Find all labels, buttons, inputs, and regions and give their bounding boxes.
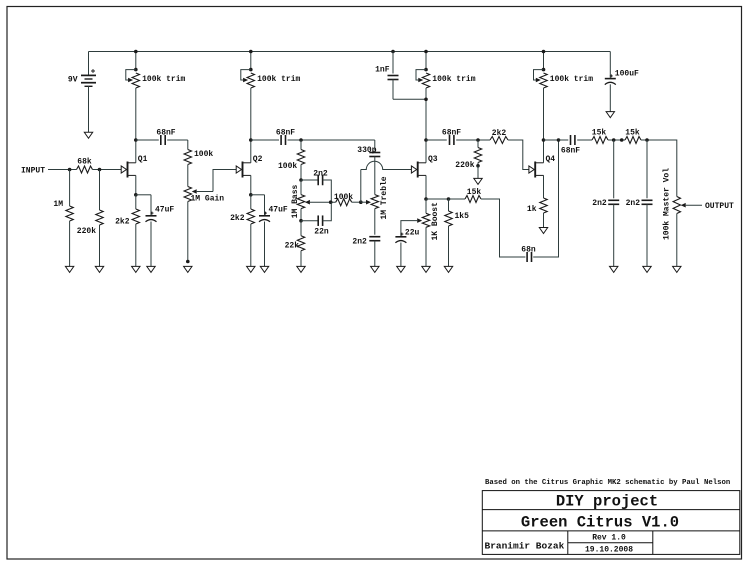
ground master vol (673, 266, 681, 272)
junction on 9V rail (424, 50, 428, 54)
junction input / 1M (68, 168, 72, 172)
trimmer resistor 100k trim (247, 73, 254, 88)
junction bass top (299, 178, 303, 182)
trimmer wiper wire (126, 70, 136, 80)
svg-text:47uF: 47uF (155, 206, 174, 215)
svg-text:Based on the Citrus Graphic MK: Based on the Citrus Graphic MK2 schemati… (485, 479, 730, 487)
svg-text:2k2: 2k2 (230, 214, 245, 223)
capacitor 330p (369, 153, 380, 157)
junction bass wiper / caps (329, 200, 333, 204)
junction Q4 drain node (542, 138, 546, 142)
svg-text:100k: 100k (334, 193, 353, 202)
potentiometer 1M Gain (184, 187, 191, 202)
svg-text:220k: 220k (455, 161, 474, 170)
capacitor 22n (318, 215, 322, 226)
resistor 220k input (96, 210, 103, 225)
trimmer resistor 100k trim (132, 73, 139, 88)
wire to 68nF out (559, 139, 569, 141)
svg-text:22k: 22k (285, 242, 300, 251)
resistor 1M (66, 206, 73, 221)
wire rail to 1nF (392, 52, 394, 74)
title block table (482, 491, 740, 555)
transistor Q2 drain stub (243, 162, 251, 164)
wire rail to trimmer at x=135.8 (135, 52, 137, 70)
resistor 100k tone (297, 150, 304, 165)
wire Q4 source to 1k (543, 175, 545, 198)
battery 9V (81, 52, 96, 133)
wire Q3 source to boost pot (425, 199, 427, 213)
wire 22n to bass wiper node (323, 202, 332, 221)
wire 1k to ground (543, 213, 545, 228)
wire to 2n2 a (613, 140, 615, 198)
wire 47uF to ground (150, 222, 152, 267)
transistor Q4 channel bar (534, 162, 536, 178)
ground 220k (95, 266, 103, 272)
svg-text:INPUT: INPUT (21, 166, 45, 175)
treble pot wiper arrow (366, 200, 371, 205)
capacitor 2n2 b (642, 200, 653, 204)
capacitor 47uF stage1 (146, 212, 157, 222)
transistor Q1 channel bar (127, 162, 129, 178)
wire 220k to ground (477, 166, 479, 179)
svg-text:OUTPUT: OUTPUT (705, 202, 734, 211)
trimmer wiper arrow (128, 78, 133, 83)
wire 1nF to trimmer3 column (393, 98, 426, 100)
junction 220k top (476, 138, 480, 142)
wire master wiper to OUTPUT (686, 204, 702, 206)
junction 220k bottom (476, 164, 480, 168)
transistor Q1 source wire (135, 175, 137, 194)
resistor 15k output1 (592, 137, 608, 144)
ground 2n2 b (643, 266, 651, 272)
svg-text:9V: 9V (68, 75, 78, 84)
wire 1k5 top (448, 199, 450, 211)
junction Q3 drain node (424, 138, 428, 142)
ground 2n2 a (610, 266, 618, 272)
wire to tone 100k (300, 140, 302, 150)
capacitor 22u (395, 233, 406, 243)
junction Q1 drain node (134, 138, 138, 142)
junction Q2 drain node (249, 138, 253, 142)
junction Q3 source node (424, 197, 428, 201)
wire 68nF3 to 2k2 (456, 139, 490, 141)
wire rail to trimmer at x=250.8 (250, 52, 252, 70)
svg-text:15k: 15k (592, 129, 607, 138)
wire Q2 source to 47uF (251, 194, 265, 196)
wire tone top to 330p (374, 140, 376, 151)
transistor Q2 drain wire (250, 140, 252, 163)
junction feedback 68n (557, 138, 561, 142)
junction on 9V rail (249, 50, 253, 54)
trimmer wiper wire (241, 70, 251, 80)
ground 100uF (606, 112, 614, 118)
wire trimmer2 to Q2 drain node (250, 88, 252, 140)
svg-text:68nF: 68nF (442, 129, 461, 138)
wire bass pot to 22n node (300, 209, 302, 221)
wire to 2n2 b (646, 140, 648, 198)
svg-text:1k: 1k (527, 205, 537, 214)
bass pot wiper arrow (305, 200, 310, 205)
wire Q3 drain to 68nF (426, 139, 447, 141)
svg-text:Rev 1.0: Rev 1.0 (592, 534, 626, 543)
svg-text:100k trim: 100k trim (550, 75, 593, 84)
boost pot wiper arrow (417, 218, 422, 223)
wire 220k bottom (477, 163, 479, 166)
svg-text:Q1: Q1 (138, 155, 148, 164)
transistor Q3 drain stub (418, 162, 426, 164)
svg-text:68nF: 68nF (276, 129, 295, 138)
svg-text:Q3: Q3 (428, 155, 438, 164)
trimmer wiper arrow (536, 78, 541, 83)
transistor Q1 drain stub (128, 162, 136, 164)
resistor 68k (77, 166, 93, 173)
ground 47uF stage1 (147, 266, 155, 272)
svg-text:100k: 100k (278, 162, 297, 171)
wire 68nF to 100k gain (167, 139, 188, 141)
capacitor 1nF (388, 76, 399, 80)
transistor Q2 channel bar (242, 162, 244, 178)
transistor Q3 gate arrow (411, 166, 416, 173)
resistor 220k stage3 (474, 148, 481, 163)
wire 2k2 stage2 to ground (250, 224, 252, 266)
svg-text:1M Treble: 1M Treble (380, 176, 389, 219)
junction trimmer top (249, 68, 253, 72)
wire gain wiper to Q2 gate (213, 170, 236, 192)
wire hop over 330p branch (361, 161, 412, 169)
wire down to 47uF (150, 195, 152, 216)
ground 1k (539, 228, 547, 234)
junction gain pot ground (186, 260, 190, 264)
junction bass bottom (299, 219, 303, 223)
wire 68n to Q4 drain node (533, 140, 558, 257)
resistor 22k (297, 236, 304, 251)
wire treble node up (360, 170, 362, 203)
transistor Q4 drain wire (543, 140, 545, 163)
svg-text:68nF: 68nF (156, 129, 175, 138)
trimmer wiper arrow (418, 78, 423, 83)
wire rail to trimmer at x=543.5 (543, 52, 545, 70)
svg-text:Q2: Q2 (253, 155, 263, 164)
wire 15k to 68n feedback (481, 199, 525, 257)
wire Q1 source to 2k2 (135, 195, 137, 209)
master vol wiper arrow (681, 203, 686, 208)
transistor Q3 channel bar (417, 162, 419, 178)
svg-text:22u: 22u (405, 228, 420, 237)
svg-text:15k: 15k (467, 188, 482, 197)
svg-text:1K Boost: 1K Boost (431, 202, 440, 241)
junction on 9V rail (134, 50, 138, 54)
wire treble wiper (361, 201, 366, 203)
svg-text:Branimir Bozak: Branimir Bozak (485, 541, 565, 552)
svg-text:22n: 22n (314, 228, 329, 237)
potentiometer 100k Master Vol (673, 197, 680, 214)
wire 2n2 treble to ground (374, 241, 376, 267)
svg-text:Green Citrus V1.0: Green Citrus V1.0 (521, 513, 679, 531)
trimmer wiper wire (534, 70, 544, 80)
svg-text:1nF: 1nF (375, 65, 390, 74)
wire 22u to ground (400, 243, 402, 267)
wire bass top to 2n2 (301, 179, 318, 181)
ground 2k2 stage1 (132, 266, 140, 272)
junction on 9V rail (542, 50, 546, 54)
junction 2n2 a (612, 138, 616, 142)
trimmer resistor 100k trim (540, 73, 547, 88)
wire boost wiper to 22u (401, 221, 417, 237)
capacitor 68n (527, 252, 531, 262)
ground 1k5 (444, 266, 452, 272)
svg-text:2n2: 2n2 (626, 199, 641, 208)
svg-text:19.10.2008: 19.10.2008 (585, 546, 633, 555)
wire to 22n (301, 220, 318, 222)
wire 2n2 to bass wiper node (323, 180, 332, 202)
junction 15k2 input (620, 138, 624, 142)
wire bass node to bass pot (300, 180, 302, 195)
junction 1nF trimmer3 (424, 98, 428, 102)
ground gain pot (184, 266, 192, 272)
wire Q1 source to 47uF (136, 194, 151, 196)
svg-text:100k trim: 100k trim (142, 75, 185, 84)
wire to 1M (69, 170, 71, 207)
wire to 220k stage3 (477, 140, 479, 148)
wire 220k to ground (99, 225, 101, 266)
wire gain wiper (197, 191, 213, 193)
transistor Q1 gate arrow (121, 166, 126, 173)
wire trimmer3 to Q3 drain node (425, 88, 427, 140)
wire 15k2 to master vol (641, 140, 677, 197)
capacitor 47uF stage2 (259, 212, 270, 222)
transistor Q2 source stub (243, 174, 251, 176)
potentiometer 1K Boost (422, 213, 429, 227)
wire 2k2 to Q4 gate (508, 140, 529, 170)
svg-text:DIY project: DIY project (556, 492, 658, 510)
wire down to 47uF stage2 (264, 195, 266, 216)
wire bass bottom to 22k (300, 221, 302, 236)
transistor Q4 source wire (543, 175, 545, 197)
resistor 2k2 stage2 (247, 209, 254, 224)
transistor Q3 drain wire (425, 140, 427, 163)
ground 2k2 stage2 (247, 266, 255, 272)
wire bass wiper to 100k mid (310, 201, 336, 203)
svg-text:100k trim: 100k trim (432, 75, 475, 84)
junction trimmer top (424, 68, 428, 72)
potentiometer 1M Bass (297, 195, 304, 209)
capacitor 2n2 treble (369, 237, 380, 241)
resistor 2k2 stage1 (132, 209, 139, 224)
wire 100uF to ground (609, 84, 611, 111)
svg-text:47uF: 47uF (269, 206, 288, 215)
junction 2n2 b (645, 138, 649, 142)
svg-text:2n2: 2n2 (313, 169, 328, 178)
ground 1M (65, 266, 73, 272)
svg-text:100k: 100k (194, 150, 213, 159)
transistor Q4 source stub (535, 174, 543, 176)
trimmer resistor 100k trim (422, 73, 429, 88)
transistor Q1 source stub (128, 174, 136, 176)
wire gain pot to ground (187, 202, 189, 262)
svg-text:68k: 68k (77, 157, 92, 166)
wire 1nF down (392, 80, 394, 100)
junction trimmer top (542, 68, 546, 72)
resistor 15k stage3 (465, 196, 481, 203)
transistor Q3 source stub (418, 174, 426, 176)
transistor Q2 gate arrow (236, 166, 241, 173)
capacitor 68nF output (571, 135, 575, 145)
svg-text:1M: 1M (53, 200, 63, 209)
wire 22k to ground (300, 251, 302, 267)
capacitor 2n2 bass (318, 175, 322, 186)
capacitor 68nF stage1 (161, 135, 165, 145)
svg-text:220k: 220k (77, 227, 96, 236)
ground 2n2 treble (371, 266, 379, 272)
wire to 15k stage3 (449, 198, 466, 200)
ground 47uF stage2 (260, 266, 268, 272)
transistor Q4 gate arrow (529, 166, 534, 173)
svg-text:1k5: 1k5 (455, 212, 470, 221)
junction Q2 source node (249, 193, 253, 197)
resistor 100k mid (336, 199, 352, 206)
wire 100k to gain pot (187, 165, 189, 187)
svg-text:1M Gain: 1M Gain (191, 195, 225, 204)
wire Q1 drain to 68nF (136, 139, 159, 141)
junction trimmer top (134, 68, 138, 72)
svg-text:100k Master Vol: 100k Master Vol (662, 168, 671, 240)
wire 1M to ground (69, 221, 71, 266)
junction 68k / 220k (98, 168, 102, 172)
wire rail to trimmer at x=426.0 (425, 52, 427, 70)
wire Q2 source to 2k2 (250, 195, 252, 209)
wire 68k to Q1 gate (93, 169, 122, 171)
wire 2n2 b to ground (646, 204, 648, 266)
capacitor 68nF stage3 (450, 135, 454, 145)
wire trimmer1 to Q1 drain node (135, 88, 137, 140)
resistor 1k (540, 198, 547, 213)
wire to 220k (99, 170, 101, 211)
svg-text:15k: 15k (625, 129, 640, 138)
ground battery (84, 132, 92, 138)
wire 68nF4 to 15k (577, 139, 592, 141)
capacitor 68nF stage2 (281, 135, 285, 145)
wire 100k tone to bass node (300, 165, 302, 181)
wire 1k5 to ground (448, 226, 450, 266)
ground 22u (397, 266, 405, 272)
junction tone 100k top (299, 138, 303, 142)
transistor Q2 source wire (250, 175, 252, 194)
wire Q3 source row (426, 198, 449, 200)
junction 1k5 top (447, 197, 451, 201)
wire 9V power rail (89, 51, 611, 53)
wire INPUT (48, 169, 77, 171)
resistor 1k5 (445, 211, 452, 226)
svg-text:100k trim: 100k trim (257, 75, 300, 84)
junction Q1 source node (134, 193, 138, 197)
wire 100k mid to treble node (352, 201, 361, 203)
wire corner down to 100k (187, 140, 189, 150)
wire Q4 drain to feedback node (544, 139, 559, 141)
resistor 100k gain top (184, 150, 191, 165)
ground 220k stage3 (474, 178, 482, 184)
capacitor 2n2 a (608, 200, 619, 204)
svg-text:330p: 330p (357, 146, 376, 155)
wire trimmer4 to Q4 drain node (543, 88, 545, 140)
wire 330p to treble pot (374, 157, 376, 195)
svg-text:2n2: 2n2 (352, 237, 367, 246)
gain pot wiper arrow (192, 189, 197, 194)
ground boost pot (422, 266, 430, 272)
junction treble wiper node (359, 200, 363, 204)
svg-text:2k2: 2k2 (492, 129, 507, 138)
resistor 2k2 coupling (490, 137, 508, 144)
wire treble pot to 2n2 (374, 209, 376, 235)
transistor Q3 source wire (425, 175, 427, 199)
potentiometer 1M Treble (371, 195, 378, 209)
svg-text:2n2: 2n2 (592, 199, 607, 208)
svg-text:2k2: 2k2 (115, 217, 130, 226)
wire master vol to ground (676, 214, 678, 267)
resistor 15k output2 (625, 137, 641, 144)
wire 47uF2 to ground (264, 222, 266, 267)
wire 2n2 a to ground (613, 204, 615, 266)
wire 68nF2 to tone stack (288, 139, 375, 141)
trimmer wiper wire (416, 70, 426, 80)
svg-text:68nF: 68nF (561, 146, 580, 155)
transistor Q4 drain stub (535, 162, 543, 164)
wire Q2 drain to 68nF (251, 139, 279, 141)
svg-text:100uF: 100uF (615, 69, 639, 78)
wire boost pot to ground (425, 227, 427, 266)
junction rail 1nF (391, 50, 395, 54)
svg-text:1M Bass: 1M Bass (291, 185, 300, 219)
wire between 15k resistors (608, 139, 625, 141)
svg-text:Q4: Q4 (546, 155, 556, 164)
capacitor 100uF (605, 74, 616, 84)
trimmer wiper arrow (243, 78, 248, 83)
ground 22k (297, 266, 305, 272)
transistor Q1 drain wire (135, 140, 137, 163)
svg-text:68n: 68n (521, 246, 536, 255)
wire 2k2 to ground (135, 224, 137, 266)
wire rail right end down to 100uF (609, 52, 611, 79)
